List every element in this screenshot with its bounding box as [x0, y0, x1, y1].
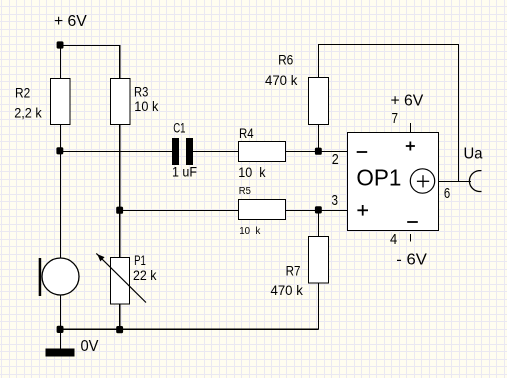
svg-text:R7: R7 — [286, 264, 301, 279]
wire R4 to OP1 pin 2 — [285, 151, 348, 153]
resistor R4 — [239, 142, 286, 162]
wire feedback top rail — [318, 44, 458, 46]
wire R5 to OP1 pin 3 — [285, 210, 348, 212]
wire feedback right rail down to output — [458, 44, 460, 182]
op-amp OP1 — [348, 133, 439, 231]
svg-text:0V: 0V — [81, 338, 99, 355]
wire R2 top lead — [60, 45, 62, 79]
microphone — [39, 258, 79, 296]
junction ground node P1 — [116, 326, 123, 333]
ground 0V bar — [45, 348, 74, 356]
svg-text:OP1: OP1 — [356, 164, 401, 190]
svg-text:C1: C1 — [173, 121, 185, 136]
svg-text:R2: R2 — [15, 86, 30, 101]
wire node A down to microphone — [60, 151, 62, 258]
wire R3 top lead — [119, 45, 121, 79]
wire R7 top lead — [318, 210, 320, 236]
svg-text:1 uF: 1 uF — [172, 165, 197, 180]
wire tap node to R5 — [120, 210, 239, 212]
wire top rail from R2 to R3 — [60, 45, 120, 47]
capacitor C1 — [172, 138, 193, 165]
svg-text:R5: R5 — [239, 186, 252, 197]
svg-text:470 k: 470 k — [265, 73, 298, 88]
resistor R7 — [309, 237, 329, 284]
junction signal node A — [56, 147, 63, 154]
wire microphone bottom lead — [60, 295, 62, 329]
junction R5 tap node — [116, 207, 123, 214]
pin 4 stub — [410, 234, 412, 242]
minus sign negative supply — [407, 221, 418, 223]
svg-text:6: 6 — [444, 185, 450, 202]
svg-text:+ 6V: + 6V — [391, 92, 424, 109]
svg-text:22 k: 22 k — [133, 268, 157, 283]
svg-text:3: 3 — [332, 192, 339, 209]
wire P1 bottom lead — [119, 304, 121, 329]
junction at +6V rail — [57, 41, 64, 48]
svg-text:- 6V: - 6V — [396, 252, 427, 269]
potentiometer P1 — [96, 253, 146, 304]
resistor R5 — [239, 200, 286, 220]
plus sign non-inverting input — [357, 205, 368, 216]
resistor R3 — [111, 79, 131, 125]
wire node A to C1 — [60, 151, 172, 153]
resistor R6 — [309, 78, 329, 125]
wire bottom rail — [60, 328, 319, 330]
svg-text:4: 4 — [390, 231, 397, 248]
resistor R2 — [51, 79, 71, 125]
svg-text:R6: R6 — [278, 53, 293, 68]
wire R7 bottom lead — [318, 283, 320, 329]
svg-text:R3: R3 — [134, 85, 148, 100]
svg-text:10 k: 10 k — [238, 165, 265, 180]
connector Ua jack — [469, 171, 481, 192]
svg-text:+ 6V: + 6V — [54, 13, 87, 30]
svg-text:7: 7 — [392, 110, 399, 127]
wire R6 top lead — [318, 44, 320, 78]
wire R2 bottom lead to signal node — [60, 125, 62, 152]
svg-text:10 k: 10 k — [239, 226, 261, 237]
wire output pin 6 — [438, 181, 471, 183]
svg-text:Ua: Ua — [464, 146, 483, 163]
wire C1 to R4 — [193, 151, 239, 153]
svg-text:470 k: 470 k — [271, 283, 304, 298]
svg-text:2,2 k: 2,2 k — [14, 106, 42, 121]
wire R3 bottom lead down to P1 — [119, 125, 121, 258]
pin 7 stub — [410, 123, 412, 133]
svg-text:R4: R4 — [239, 126, 254, 141]
svg-text:2: 2 — [332, 151, 339, 168]
svg-text:P1: P1 — [134, 253, 146, 268]
junction ground node left — [57, 326, 64, 333]
svg-text:10 k: 10 k — [134, 99, 158, 114]
minus sign inverting input — [357, 151, 368, 153]
output circle with plus — [410, 169, 434, 193]
plus sign positive supply — [406, 142, 415, 151]
wire R6 bottom lead — [318, 125, 320, 152]
junction non-inverting input node — [315, 206, 322, 213]
wire ground stub — [60, 329, 62, 348]
junction inverting input node — [315, 148, 322, 155]
